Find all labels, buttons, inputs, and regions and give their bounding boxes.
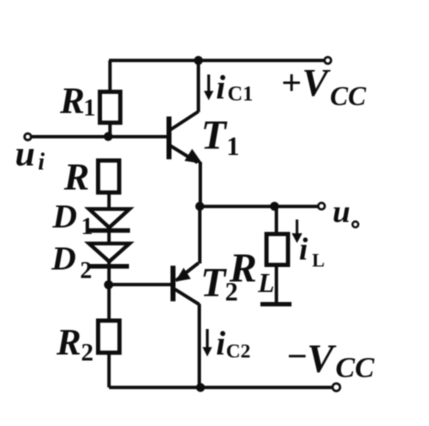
- wire emitter T1 to output node: [199, 162, 202, 206]
- label RL: [229, 245, 275, 299]
- label uo subscript circle: [353, 222, 359, 228]
- svg-text:CC: CC: [336, 352, 375, 384]
- svg-text:T: T: [201, 259, 228, 305]
- node top junction: [194, 56, 203, 65]
- svg-text:i: i: [299, 231, 308, 267]
- wire bottom rail: [109, 386, 333, 389]
- label iL: [299, 231, 325, 272]
- arrow iC2: [203, 329, 213, 357]
- label R1: [59, 81, 96, 122]
- svg-text:V: V: [307, 336, 337, 381]
- wire top rail: [109, 59, 324, 62]
- transistor T1: [169, 112, 202, 164]
- svg-text:1: 1: [81, 214, 93, 240]
- svg-text:CC: CC: [330, 81, 367, 111]
- wire collector T1: [197, 60, 200, 112]
- wire base T2: [108, 283, 173, 286]
- wire R1 top: [108, 60, 111, 92]
- label iC2: [216, 326, 250, 363]
- wire RL top: [275, 206, 278, 234]
- svg-text:R: R: [63, 157, 89, 199]
- wire input to base T1: [32, 135, 169, 138]
- resistor RL: [267, 234, 289, 265]
- resistor R2: [98, 321, 119, 353]
- svg-text:i: i: [216, 326, 226, 363]
- diode D2: [88, 244, 130, 267]
- svg-text:C2: C2: [226, 341, 250, 363]
- arrow iL: [292, 220, 303, 244]
- terminal -Vcc: [333, 383, 341, 391]
- node input junction: [104, 132, 113, 141]
- svg-text:C1: C1: [228, 82, 254, 106]
- terminal +Vcc: [325, 57, 332, 64]
- svg-text:+: +: [281, 63, 302, 103]
- resistor R1: [100, 92, 120, 123]
- node RL junction: [270, 202, 279, 211]
- svg-text:i: i: [216, 70, 226, 107]
- svg-text:R: R: [59, 81, 85, 122]
- label R: [63, 157, 89, 199]
- svg-text:R: R: [56, 323, 82, 364]
- svg-text:i: i: [38, 150, 45, 176]
- wire emitter T2: [198, 206, 201, 263]
- label D2: [51, 241, 93, 285]
- terminal input ui: [25, 134, 32, 141]
- label -Vcc: [286, 336, 375, 384]
- ground bar: [260, 302, 291, 306]
- label iC1: [216, 70, 253, 107]
- node emitter-collector bottom junction: [196, 383, 205, 392]
- label T1: [201, 112, 240, 162]
- svg-text:L: L: [312, 251, 325, 272]
- terminal output uo: [318, 203, 325, 210]
- svg-text:R: R: [229, 245, 257, 291]
- wire R1 bottom: [108, 123, 111, 137]
- wire R2 bottom: [107, 353, 110, 388]
- arrow iC1: [204, 75, 214, 101]
- wire output: [200, 205, 318, 208]
- svg-text:1: 1: [84, 96, 96, 122]
- label uo: [333, 193, 351, 229]
- wire D1 to D2: [107, 227, 110, 244]
- svg-text:u: u: [15, 134, 35, 174]
- svg-text:D: D: [51, 241, 77, 278]
- label +Vcc: [281, 62, 367, 112]
- label R2: [56, 323, 94, 367]
- svg-text:−: −: [286, 336, 308, 376]
- wire RL bottom: [275, 265, 278, 303]
- label ui: [15, 134, 45, 176]
- diode D1: [89, 209, 130, 231]
- transistor T2: [173, 263, 199, 305]
- label T2: [201, 259, 239, 307]
- wire collector T2: [198, 304, 201, 387]
- label D1: [52, 199, 94, 241]
- svg-text:V: V: [302, 62, 331, 105]
- svg-text:1: 1: [227, 132, 240, 161]
- node diode-base junction: [104, 280, 113, 289]
- svg-text:u: u: [333, 193, 351, 229]
- node output junction: [195, 202, 204, 211]
- svg-text:D: D: [52, 199, 78, 236]
- svg-text:T: T: [201, 112, 228, 158]
- svg-text:L: L: [257, 268, 275, 298]
- wire R to D1: [107, 193, 110, 210]
- svg-text:2: 2: [80, 258, 92, 284]
- wire D2 to R2: [107, 262, 110, 321]
- resistor R: [98, 161, 119, 193]
- svg-text:2: 2: [81, 340, 94, 367]
